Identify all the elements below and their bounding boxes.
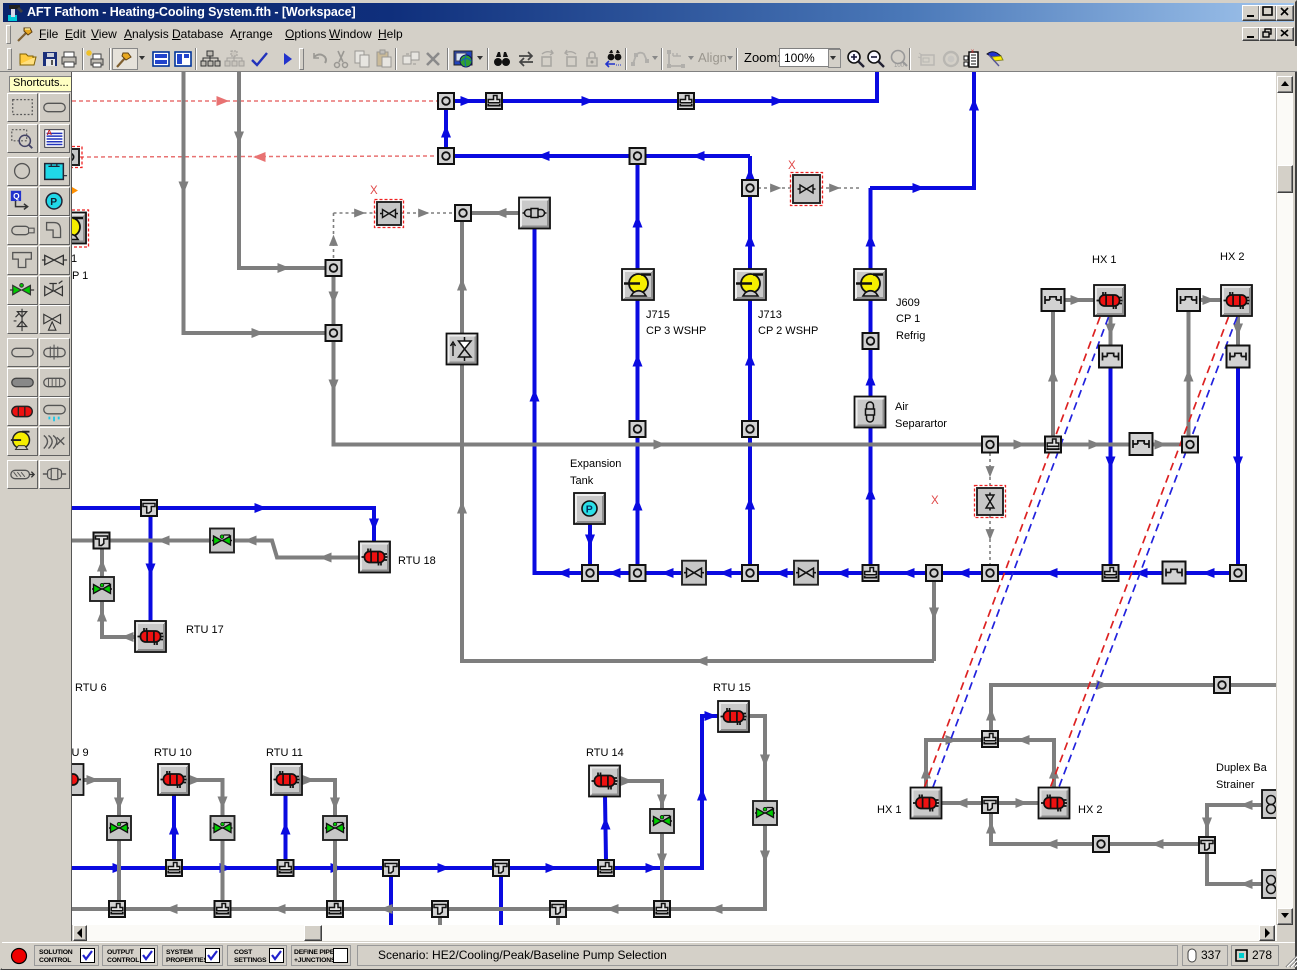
junction at left edge (selected) (62, 147, 82, 168)
svg-text:P: P (50, 197, 57, 208)
pipe blue stub below tee x=391 (389, 876, 393, 925)
thermal link blue HX2 (1058, 317, 1238, 791)
pipe gray stub below junction x=934 (932, 581, 936, 661)
svg-text:CP 1: CP 1 (72, 270, 88, 282)
closed pipe dashed from valve (401, 212, 455, 214)
heat exchanger HX 2 hot side (1221, 285, 1252, 316)
pipe gray header to HX towers (998, 443, 1190, 447)
arrow right (113, 863, 126, 873)
tee junction (550, 901, 566, 917)
menu bar (2, 22, 1295, 46)
arrow left (319, 553, 332, 563)
arrow up (1184, 369, 1194, 382)
pump J715 CP 3 WSHP (622, 269, 654, 300)
pump J609 CP 1 Refrig (854, 269, 886, 300)
svg-text:CP 2 WSHP: CP 2 WSHP (758, 325, 818, 337)
pipe gray tee to HX2 (998, 801, 1038, 805)
arrow left (695, 656, 708, 666)
svg-text:HX 2: HX 2 (1078, 804, 1102, 816)
arrow up (745, 168, 755, 181)
arrow right (1155, 440, 1168, 450)
closed pipe dashed bypass lower (989, 515, 991, 565)
pipe gray long return x=462 y=661 (462, 221, 934, 661)
arrow down (986, 529, 995, 540)
pipe blue HX2 drop x=1238 (1236, 368, 1240, 573)
title bar (3, 3, 1294, 22)
pipe gray junction to general component (471, 211, 519, 215)
closed pipe dashed to valve J713 line (758, 187, 793, 189)
arrow left (557, 568, 570, 578)
closed pipe arrow left (253, 152, 266, 162)
pipe gray x=183 down to junction (184, 72, 326, 333)
svg-text:RTU 17: RTU 17 (186, 624, 224, 636)
pipe blue HX1 drop x=1110 (1109, 368, 1113, 573)
arrow down (330, 798, 340, 811)
pipe blue return header y=156 (446, 154, 750, 158)
arrow left (1045, 568, 1058, 578)
svg-text:100: 100 (894, 63, 905, 69)
arrow right (946, 735, 959, 745)
arrow left (775, 568, 788, 578)
junction (326, 325, 342, 341)
pipe gray HX1 tower vertical (1051, 312, 1055, 437)
svg-text:x: x (971, 49, 974, 55)
pipe blue RTU10 riser (172, 795, 176, 860)
arrow left (1135, 568, 1148, 578)
control valve (green) (650, 809, 674, 833)
arrow up (1049, 766, 1059, 779)
pipe gray HX1 to junction below (1109, 315, 1113, 346)
pipe blue RTU18 supply y=508 (72, 508, 374, 541)
arrow right (87, 775, 100, 785)
arrow up (633, 498, 643, 511)
arrow right (1203, 295, 1216, 305)
pipe blue bottom manifold y=573 (535, 228, 1239, 573)
svg-text:Refrig: Refrig (896, 330, 925, 342)
pipe gray RTU14 return (620, 781, 662, 901)
branch junction (598, 860, 614, 876)
pipe gray strainer bottom branch (1207, 853, 1268, 884)
control valve (green) (753, 801, 777, 825)
branch junction (166, 860, 182, 876)
tee junction (141, 500, 157, 516)
arrow right (220, 863, 233, 873)
branch junction (278, 860, 294, 876)
pipe gray between junctions x=333 (332, 276, 336, 325)
arrow down (218, 797, 228, 810)
tee junction (1199, 837, 1215, 853)
branch junction (1103, 565, 1119, 581)
control valve (green) (211, 816, 235, 840)
arrow left (157, 536, 170, 546)
pipe gray RTU bottom return y=909 (72, 907, 654, 911)
expansion tank (574, 493, 605, 524)
junction (742, 421, 758, 437)
arrow up (441, 125, 451, 138)
junction (1182, 437, 1198, 453)
arrow up (697, 788, 707, 801)
tube bundle junction (1099, 346, 1122, 368)
arrow right (1097, 680, 1110, 690)
arrow left (121, 632, 134, 642)
heat exchanger HX 1 hot side (1094, 285, 1125, 316)
closed pipe dashed valve to junction (820, 187, 862, 189)
junction (742, 180, 758, 196)
valve on manifold (794, 561, 818, 585)
arrow right (654, 440, 667, 450)
arrow left (1017, 735, 1030, 745)
arrow up (97, 559, 107, 572)
arrow left (710, 904, 723, 914)
arrow right (705, 711, 718, 721)
branch junction (486, 93, 502, 109)
general component J? x=534 (519, 198, 550, 229)
arrow left (1045, 839, 1058, 849)
arrow up (866, 373, 876, 386)
pipe blue CP2 vertical x=750 (748, 188, 752, 573)
arrow down (179, 182, 189, 195)
flow arrow (913, 183, 926, 193)
arrow up (969, 98, 979, 111)
junction (326, 260, 342, 276)
arrow down (760, 851, 770, 864)
heat exchanger RTU 18 (359, 542, 390, 573)
svg-text:Duplex Ba: Duplex Ba (1216, 762, 1268, 774)
arrow up (1048, 369, 1058, 382)
tube bundle junction (1177, 289, 1200, 311)
pipe blue CP1 vertical x=870 (869, 188, 873, 573)
junction (438, 148, 454, 164)
arrow up (745, 497, 755, 510)
svg-text:A: A (47, 128, 53, 137)
svg-text:HX 2: HX 2 (1220, 251, 1244, 263)
arrow up (329, 235, 338, 246)
arrow up (169, 822, 179, 835)
arrow right (278, 263, 291, 273)
svg-text:RTU 14: RTU 14 (586, 747, 624, 759)
arrow left (537, 151, 550, 161)
heat exchanger RTU 11 (271, 764, 302, 795)
arrow left (1202, 568, 1215, 578)
svg-text:P: P (586, 504, 593, 516)
svg-text:HX 1: HX 1 (877, 804, 901, 816)
pipe gray tee down to strainer tee (991, 811, 1199, 844)
pipe blue stub below tee x=501 (499, 876, 503, 925)
arrow down (234, 132, 244, 145)
arrow up (530, 389, 540, 402)
pipe gray tube to HX1 top (1065, 298, 1094, 302)
closed pipe dashed to valve (334, 212, 378, 214)
svg-text:RTU 9: RTU 9 (72, 747, 89, 759)
svg-text:X: X (788, 160, 796, 172)
arrow up (866, 487, 876, 500)
check valve J? x=462 (447, 334, 478, 365)
heat exchanger RTU 9 (partial at edge) (53, 764, 84, 795)
svg-text:RTU 11: RTU 11 (266, 747, 303, 759)
thermal link red HX1 (923, 317, 1100, 791)
junction (1093, 836, 1109, 852)
svg-text:RTU 10: RTU 10 (154, 747, 192, 759)
pipe gray stub below tee x=558 (556, 917, 560, 925)
junction (982, 565, 998, 581)
pipe gray into HX1 bottom (926, 740, 982, 788)
svg-text:Separartor: Separartor (895, 418, 947, 430)
flow arrow (255, 503, 268, 513)
svg-text:J713: J713 (758, 309, 782, 321)
arrow up (281, 822, 291, 835)
vertical scrollbar (1277, 76, 1293, 925)
arrow up (921, 766, 931, 779)
arrow left (1240, 800, 1253, 810)
svg-text:J715: J715 (646, 309, 670, 321)
arrow right (546, 863, 559, 873)
arrow up (633, 354, 643, 367)
pipe gray RTU15 return (670, 716, 765, 909)
air separator J? x=870 (855, 397, 886, 428)
svg-text:1: 1 (72, 253, 77, 265)
pipe gray RTU10 return (189, 780, 223, 901)
pipe gray RTU17 return (102, 548, 135, 637)
pump at left edge (selected) (52, 210, 89, 247)
arrow up (745, 353, 755, 366)
heat exchanger HX 2 cold side (1039, 788, 1070, 819)
closed pipe P? (red dashed) top (72, 100, 438, 102)
svg-text:CP 1: CP 1 (896, 313, 920, 325)
arrow right (354, 209, 365, 218)
arrow left (380, 904, 393, 914)
svg-text:Tank: Tank (570, 475, 594, 487)
flow arrow (461, 96, 474, 106)
pipe gray x=239 down to junction (239, 72, 326, 268)
arrow left (1151, 839, 1164, 849)
pipe blue CP3 vertical x=637 (636, 156, 640, 573)
arrow left (606, 904, 619, 914)
arrow down (146, 564, 156, 577)
heat exchanger HX 1 cold side (911, 788, 942, 819)
pipe gray RTU9 return (84, 780, 119, 901)
pipe blue riser x=446 (444, 101, 448, 156)
control valve (green) (210, 529, 234, 553)
svg-text:RTU 18: RTU 18 (398, 555, 436, 567)
flow arrow (582, 96, 595, 106)
svg-text:X: X (931, 495, 939, 507)
pipe blue RTU11 riser (284, 795, 288, 860)
pipe gray RTU18 return (72, 541, 359, 558)
svg-text:X: X (370, 185, 378, 197)
arrow up (457, 501, 467, 514)
arrow down (657, 795, 667, 808)
heat exchanger RTU 17 (135, 621, 166, 652)
arrow right (621, 776, 634, 786)
arrow up (97, 609, 107, 622)
branch junction (982, 731, 998, 747)
arrow left (608, 568, 621, 578)
arrow right (770, 184, 781, 193)
junction J top-left (438, 93, 454, 109)
arrow up (601, 817, 611, 830)
arrow up (633, 215, 643, 228)
junction (630, 421, 646, 437)
branch junction (654, 901, 670, 917)
left tool palette (2, 72, 72, 942)
arrow left (955, 798, 968, 808)
thermal link blue HX1 (932, 317, 1109, 791)
pipe gray HX2 tower vertical (1187, 312, 1191, 437)
strainer icon partial bottom (1262, 870, 1286, 898)
arrow down (329, 292, 339, 305)
tube bundle junction (1130, 433, 1153, 455)
arrow up (986, 821, 996, 834)
svg-text:RTU 6: RTU 6 (75, 682, 107, 694)
junction (582, 565, 598, 581)
pipe blue RTU17 drop x=150 (149, 508, 153, 621)
arrow right (190, 775, 203, 785)
tee junction (982, 797, 998, 813)
arrow left (719, 568, 732, 578)
heat exchanger RTU 14 (589, 766, 620, 797)
junction (630, 565, 646, 581)
pipe gray RTU11 return (302, 780, 335, 901)
heat exchanger RTU 15 (718, 701, 749, 732)
pipe blue expansion tank drop (588, 524, 592, 573)
branch junction (678, 93, 694, 109)
tube bundle junction (1042, 289, 1065, 311)
tee junction (493, 860, 509, 876)
arrow down (1233, 457, 1243, 470)
branch junction (109, 901, 125, 917)
junction (1214, 677, 1230, 693)
branch junction (1045, 437, 1061, 453)
arrow right (646, 863, 659, 873)
arrow down (657, 854, 667, 867)
arrow down (369, 519, 379, 532)
pipe gray condenser top header y=685 (991, 685, 1276, 731)
arrow right (829, 184, 840, 193)
valve on manifold (682, 561, 706, 585)
closed pipe dashed bypass upper (989, 453, 991, 488)
arrow right (331, 863, 344, 873)
heat exchanger RTU 10 (158, 764, 189, 795)
pipe gray into HX2 bottom (998, 740, 1054, 788)
arrow down (986, 466, 995, 477)
arrow down (929, 608, 939, 621)
arrow right (252, 328, 265, 338)
arrow down (329, 380, 339, 393)
arrow right (438, 863, 451, 873)
svg-text:Strainer: Strainer (1216, 779, 1255, 791)
control valve (green) (107, 816, 131, 840)
junction (1230, 565, 1246, 581)
control valve (green) (323, 816, 347, 840)
arrow left (902, 568, 915, 578)
arrow left (165, 904, 178, 914)
pipe blue RTU14 riser (605, 797, 606, 860)
svg-text:Air: Air (895, 401, 909, 413)
pipe gray HX2 to junction below (1236, 315, 1240, 346)
pipe gray air separator header y=445 (334, 341, 991, 445)
pipe gray stub below tee x=440 (438, 917, 442, 925)
orange marker at left edge (72, 187, 78, 194)
svg-text:RTU 15: RTU 15 (713, 682, 751, 694)
junction (742, 565, 758, 581)
tee junction (432, 901, 448, 917)
status bar (2, 942, 1295, 969)
pipe blue CP1 riser (870, 72, 974, 188)
tee junction (94, 533, 110, 549)
closed valve (X) on bypass (975, 486, 1006, 518)
strainer icon partial top (1262, 790, 1286, 818)
arrow right (418, 209, 429, 218)
arrow down (585, 535, 595, 548)
pipe gray HX1 to tee (942, 801, 982, 805)
svg-text:Expansion: Expansion (570, 458, 621, 470)
arrow left (494, 208, 507, 218)
arrow left (244, 536, 257, 546)
arrow right (1089, 440, 1102, 450)
arrow down (760, 755, 770, 768)
branch junction (327, 901, 343, 917)
arrow up (745, 234, 755, 247)
tube bundle junction (1163, 562, 1186, 584)
arrow left (273, 904, 286, 914)
tube bundle junction (1227, 346, 1250, 368)
junction (982, 437, 998, 453)
horizontal scrollbar (74, 925, 1277, 941)
flow arrow (772, 96, 785, 106)
svg-text:HX 1: HX 1 (1092, 254, 1116, 266)
thermal link red HX2 (1049, 317, 1229, 791)
toolbar (0, 46, 1297, 72)
junction (630, 148, 646, 164)
junction below CP1 (863, 333, 879, 349)
branch junction (863, 565, 879, 581)
arrow down (114, 798, 124, 811)
arrow up (457, 278, 467, 291)
arrow right (1071, 295, 1084, 305)
canvas (0, 71, 1297, 72)
tee junction (383, 860, 399, 876)
arrow left (836, 568, 849, 578)
pipe gray tube to HX2 top (1200, 298, 1221, 302)
arrow down (1106, 324, 1116, 337)
pipe blue drop to J713 branch (748, 156, 752, 188)
pipe gray strainer top branch (1207, 805, 1268, 837)
arrow left (661, 568, 674, 578)
arrow up (986, 708, 996, 721)
arrow up (866, 234, 876, 247)
svg-text:J609: J609 (896, 297, 920, 309)
control valve (green) (90, 577, 114, 601)
arrow left (692, 151, 705, 161)
svg-text:Q: Q (13, 191, 20, 201)
arrow down (1106, 457, 1116, 470)
arrow down (1202, 818, 1212, 831)
svg-text:CP 3 WSHP: CP 3 WSHP (646, 325, 706, 337)
closed valve (X) on CP1 branch (791, 173, 823, 206)
arrow right (303, 775, 316, 785)
pipe blue supply header y=101 (446, 72, 877, 101)
junction (455, 205, 471, 221)
arrow left (957, 568, 970, 578)
closed pipe dashed down (333, 213, 335, 260)
arrow right (1016, 798, 1029, 808)
branch junction (215, 901, 231, 917)
closed valve (X) near x=389 (375, 200, 404, 228)
closed pipe (red dashed) second (80, 156, 438, 157)
closed pipe arrow right (217, 96, 230, 106)
pump J713 CP 2 WSHP (734, 269, 766, 300)
arrow left (1240, 879, 1253, 889)
